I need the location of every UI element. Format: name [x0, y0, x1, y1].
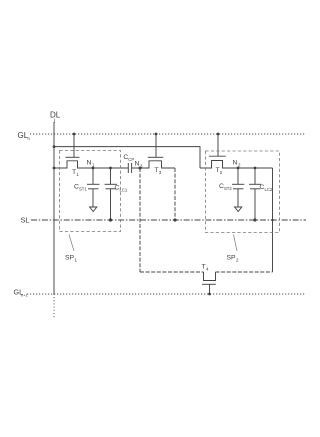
svg-text:2: 2 — [220, 170, 223, 175]
svg-text:ST1: ST1 — [79, 186, 87, 191]
svg-text:LC1: LC1 — [120, 188, 128, 193]
svg-text:N: N — [87, 160, 92, 167]
svg-text:n+1: n+1 — [21, 292, 29, 297]
svg-text:DL: DL — [50, 111, 61, 120]
svg-text:N: N — [135, 161, 140, 168]
svg-text:CP: CP — [128, 157, 134, 162]
svg-text:2: 2 — [238, 163, 241, 168]
svg-text:LC2: LC2 — [265, 187, 273, 192]
svg-text:SL: SL — [21, 215, 30, 224]
svg-text:2: 2 — [236, 258, 239, 263]
svg-text:n: n — [28, 136, 31, 141]
svg-text:4: 4 — [206, 267, 209, 272]
svg-text:j: j — [53, 118, 55, 124]
svg-text:N: N — [233, 160, 238, 167]
svg-text:ST2: ST2 — [224, 186, 232, 191]
svg-text:SP: SP — [65, 255, 75, 262]
svg-text:1: 1 — [92, 163, 95, 168]
svg-text:SP: SP — [227, 255, 237, 262]
svg-text:3: 3 — [159, 170, 162, 175]
svg-text:1: 1 — [75, 258, 78, 263]
svg-text:1: 1 — [76, 172, 79, 177]
